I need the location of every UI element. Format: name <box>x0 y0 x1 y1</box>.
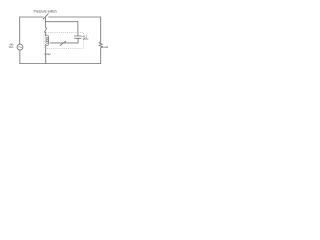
svg-text:relay: relay <box>44 52 51 56</box>
svg-text:VDC: VDC <box>83 37 89 41</box>
svg-text:Pressure switch: Pressure switch <box>34 9 57 13</box>
svg-text:VAC: VAC <box>9 46 14 49</box>
svg-text:Load: Load <box>102 45 109 49</box>
